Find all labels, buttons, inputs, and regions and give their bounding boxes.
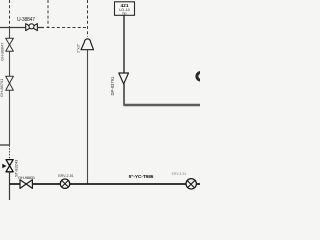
svg-text:DP-83791: DP-83791: [110, 76, 115, 96]
svg-text:GH-88701: GH-88701: [0, 78, 4, 97]
svg-text:U-38847: U-38847: [17, 17, 35, 23]
svg-text:GH-88847: GH-88847: [0, 42, 5, 61]
svg-text:GH-98831: GH-98831: [18, 175, 36, 180]
svg-text:2"x3": 2"x3": [76, 43, 81, 53]
svg-text:hp: hp: [123, 12, 127, 16]
svg-text:ERV-4-51: ERV-4-51: [172, 172, 187, 176]
svg-text:5"-YC-T986: 5"-YC-T986: [129, 174, 154, 180]
svg-text:ERV-2-51: ERV-2-51: [58, 174, 74, 178]
